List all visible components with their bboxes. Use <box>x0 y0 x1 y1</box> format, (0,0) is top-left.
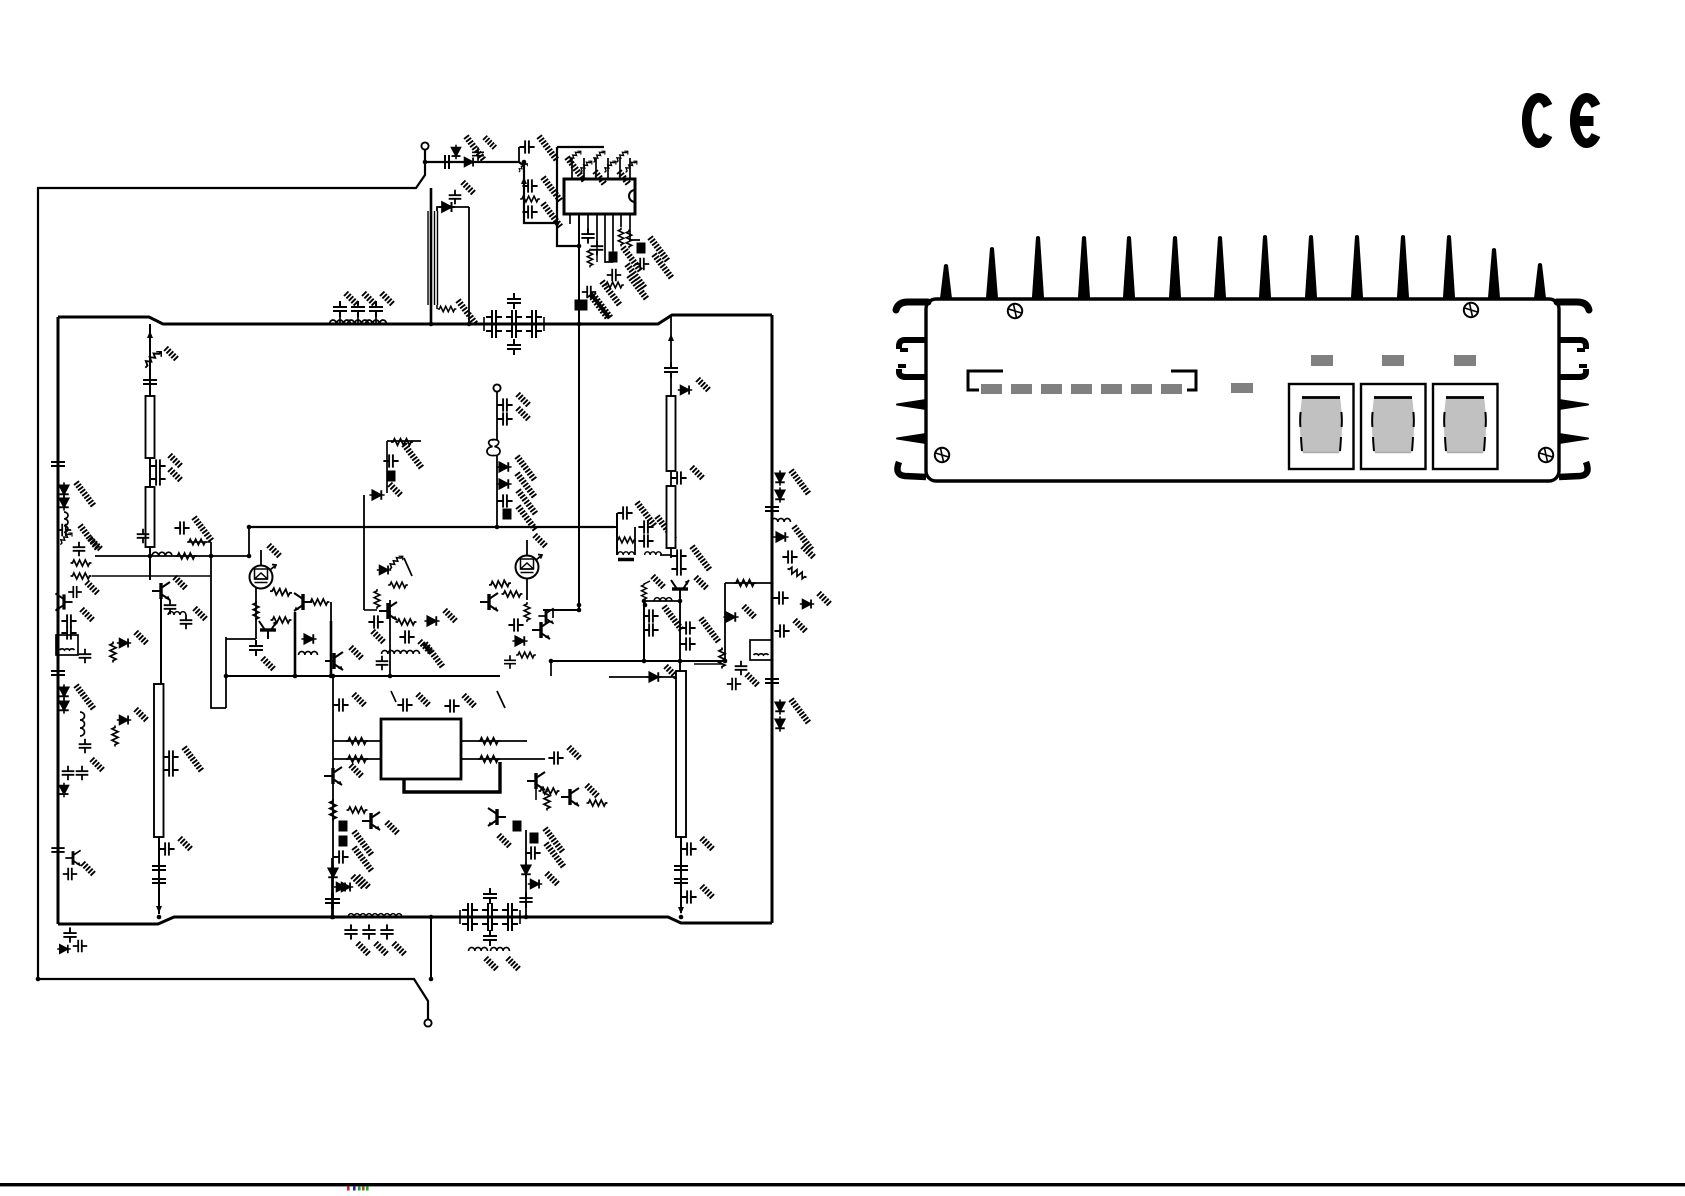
ground bus drv 3 <box>696 617 723 644</box>
ground <box>371 630 385 644</box>
resistor border link <box>734 580 756 586</box>
ground <box>453 299 480 326</box>
diode Q8 b <box>339 883 353 892</box>
ground <box>261 657 275 671</box>
wire <box>375 316 377 324</box>
inductor coil border 2 <box>80 712 85 736</box>
heatsink right fin 2 <box>1559 340 1586 349</box>
ground bus drv <box>687 545 714 572</box>
wire drop x644 <box>643 601 645 661</box>
stripline left long <box>154 684 164 837</box>
ground bus Q8 <box>349 830 376 857</box>
ground bus U1 <box>562 156 589 183</box>
resistor opto 2 <box>388 582 408 588</box>
node junction <box>642 659 647 664</box>
resistor mixer <box>616 537 636 543</box>
capacitor Q8 b <box>326 893 340 909</box>
inductor Q1 <box>168 612 186 615</box>
ground bus border a2 <box>75 524 102 551</box>
capacitor border b <box>61 614 76 627</box>
capacitor out pi b <box>502 917 518 931</box>
diode border r3 <box>773 532 788 542</box>
resistor small input <box>519 164 528 173</box>
wire aux column bottom <box>496 456 498 527</box>
ground <box>645 236 672 263</box>
diode border r6 <box>775 699 785 714</box>
capacitor border d <box>79 649 92 663</box>
heatsink right fin bottom <box>1559 462 1588 477</box>
wire <box>614 526 617 528</box>
wire switch blade <box>404 558 412 576</box>
heatsink top fin <box>1214 236 1226 300</box>
node junction <box>247 525 252 530</box>
ground <box>588 293 615 320</box>
wire IC pin s1 <box>569 214 571 224</box>
capacitor below rail a <box>63 927 76 942</box>
wire aux column top <box>496 391 498 440</box>
diode LED <box>377 566 391 575</box>
ground <box>664 665 678 679</box>
node junction <box>330 915 335 920</box>
ground <box>649 253 676 280</box>
capacitor border f2 <box>51 842 64 857</box>
screw bottom right <box>1539 448 1553 462</box>
ground <box>193 607 207 621</box>
ground <box>80 608 94 622</box>
wire IC pin s2 <box>587 214 589 231</box>
diode aux b <box>496 479 511 489</box>
resistor border 1b <box>71 573 92 579</box>
capacitor stub c <box>159 842 174 855</box>
capacitor Q7 <box>504 655 516 669</box>
capacitor out pi mid 2 <box>483 930 497 946</box>
resistor bias feed <box>391 439 413 445</box>
node junction <box>577 603 582 608</box>
diode zener input <box>145 352 161 368</box>
capacitor pi mid a <box>507 293 521 309</box>
stripline left upper <box>146 396 155 458</box>
wire bias drop <box>386 441 388 493</box>
wire stub <box>552 610 554 618</box>
resistor U1 d <box>604 282 624 288</box>
inductor L2 rail filter <box>348 320 369 324</box>
diode border f <box>117 716 131 725</box>
diode zener clamp <box>60 533 72 545</box>
wire U2 left drop <box>332 676 334 768</box>
heatsink body outline <box>926 299 1559 481</box>
heatsink top fin <box>1534 263 1546 300</box>
transistor V2 stage 2 <box>516 555 543 579</box>
node junction <box>224 674 229 679</box>
ground bus mixer a <box>632 501 659 528</box>
capacitor series rail r <box>765 501 779 517</box>
resistor V1 source <box>253 601 259 621</box>
wire Q10 emitter <box>535 789 537 800</box>
capacitor drv d <box>643 623 658 636</box>
crystal filter X2 <box>750 640 772 660</box>
capacitor below rail b <box>73 940 87 953</box>
wire IC pin s7 <box>630 214 640 240</box>
ground <box>483 136 496 149</box>
capacitor out pi a <box>462 903 478 917</box>
capacitor out b <box>362 924 375 939</box>
node junction <box>157 915 162 920</box>
ground bus limiter <box>461 135 488 162</box>
transistor Q1 driver <box>152 582 170 600</box>
ground <box>513 505 540 532</box>
wire IC top pin 1 <box>571 158 573 179</box>
wire IC pin s3 <box>596 214 598 242</box>
wire IC top pin 3 <box>595 158 597 179</box>
heatsink left fin 3 <box>899 369 926 377</box>
ground <box>349 764 363 778</box>
heatsink left fin 2 <box>899 340 926 349</box>
capacitor V2 <box>508 618 523 631</box>
heatsink top fin <box>1078 236 1090 300</box>
op-amp U1 control IC <box>564 179 635 214</box>
wire IC pin s5 <box>612 214 614 250</box>
ground <box>541 842 568 869</box>
ground <box>349 646 363 660</box>
wire mid column low <box>670 548 672 558</box>
ground <box>418 640 432 654</box>
ground <box>88 537 102 551</box>
capacitor U2 c <box>444 699 459 712</box>
capacitor U1 e <box>582 286 596 299</box>
inductor border r <box>772 518 791 522</box>
capacitor Q4 c <box>376 656 389 670</box>
ground <box>374 942 388 956</box>
node junction <box>679 915 684 920</box>
resistor opto <box>390 556 403 569</box>
resistor Q11 out <box>587 800 608 806</box>
diode Q8 a <box>328 865 338 880</box>
ground <box>512 455 539 482</box>
ground <box>618 246 645 273</box>
resistor bias diag <box>581 161 592 172</box>
capacitor shunt <box>472 147 484 161</box>
capacitor stripline tap a <box>163 750 178 763</box>
heatsink top fin <box>1123 236 1135 300</box>
diode aux a <box>496 462 511 472</box>
capacitor pi filter a <box>486 310 502 324</box>
stripline mid lower <box>667 486 676 548</box>
ground <box>497 834 511 848</box>
wire input feed <box>425 161 519 163</box>
diode border c <box>59 684 69 699</box>
capacitor stub a <box>150 459 165 472</box>
wire mid column top <box>670 315 672 362</box>
transistor Q2 <box>294 593 312 611</box>
wire to output terminal <box>430 917 432 979</box>
node junction <box>329 674 334 679</box>
heatsink top fin <box>1032 236 1044 300</box>
ground bar mixer <box>618 558 634 562</box>
node junction <box>331 674 336 679</box>
node junction <box>555 221 560 226</box>
capacitor U2 a <box>333 698 348 711</box>
inductor Q4 b <box>401 650 420 654</box>
resistor U1 b <box>626 230 631 249</box>
wire <box>670 471 672 486</box>
transistor link <box>538 608 553 623</box>
wire IC top pin 5 <box>619 158 621 179</box>
wire top supply rail <box>58 315 772 324</box>
transistor border <box>65 850 80 865</box>
wire V1 source <box>255 587 257 639</box>
heatsink right fin 5 <box>1559 434 1588 443</box>
capacitor mixer a <box>617 506 632 519</box>
capacitor V1 bypass <box>249 640 263 656</box>
ground <box>356 875 370 889</box>
capacitor feedthrough aux <box>503 509 512 520</box>
CE mark letter C <box>1527 98 1548 144</box>
wire <box>543 317 545 331</box>
footer rule <box>0 1183 1685 1186</box>
stripline left lower <box>146 487 155 547</box>
transistor Q12 <box>488 808 506 826</box>
diode below rail <box>57 945 71 954</box>
diode Q4 <box>424 616 439 626</box>
resistor border r <box>786 566 808 580</box>
inductor out 3b <box>384 914 402 917</box>
capacitor dropper a <box>522 179 537 192</box>
capacitor left shunt <box>137 529 150 543</box>
capacitor border r4 <box>735 661 748 675</box>
wire <box>694 663 722 665</box>
diode mid <box>301 634 316 644</box>
ground <box>540 827 567 854</box>
heatsink left fin 4 <box>897 400 926 409</box>
capacitor pi filter b <box>506 324 522 338</box>
capacitor out c <box>380 924 393 939</box>
wire to control IC <box>519 162 556 223</box>
capacitor feedthrough c <box>579 300 588 311</box>
ground <box>85 581 99 595</box>
ground <box>168 468 182 482</box>
ground <box>134 631 148 645</box>
wire bias column <box>363 495 365 610</box>
transistor Q11 <box>561 788 579 806</box>
resistor U2 out2 <box>478 756 500 762</box>
capacitor pi filter a <box>506 310 522 324</box>
wire Q8 emitter chain <box>332 784 334 917</box>
capacitor feedthrough rail <box>575 300 584 311</box>
wire y677 <box>609 676 680 678</box>
capacitor series d <box>674 873 688 889</box>
resistor border <box>71 560 92 566</box>
resistor bias diag <box>605 161 616 172</box>
capacitor border c <box>61 626 76 639</box>
stripline right long <box>676 671 686 837</box>
wire left column low <box>149 547 151 580</box>
diode out <box>334 883 348 892</box>
capacitor drv e <box>680 621 695 634</box>
capacitor drv c <box>643 609 658 622</box>
capacitor rail filter <box>333 301 347 317</box>
capacitor series c <box>674 860 688 876</box>
heatsink top fin <box>986 247 998 300</box>
resistor bias diag <box>617 151 628 162</box>
capacitor feedthrough e <box>339 836 348 847</box>
display bracket right <box>1171 371 1196 390</box>
ground <box>352 693 366 707</box>
node junction <box>549 659 554 664</box>
ground <box>164 347 178 361</box>
diode mid column <box>678 386 692 395</box>
diode border r4 <box>800 600 814 609</box>
capacitor stripline tap b <box>163 763 178 776</box>
capacitor border h <box>76 766 89 780</box>
display segment <box>1101 384 1122 394</box>
ground <box>533 534 547 548</box>
ground <box>516 407 530 421</box>
wire mid web vertical 2 <box>211 542 226 708</box>
wire IC top feed <box>557 146 604 148</box>
ground <box>173 576 187 590</box>
ground <box>416 693 430 707</box>
node junction <box>577 322 582 327</box>
transistor Q4 <box>379 602 397 620</box>
ground bus drv 2 <box>659 605 686 632</box>
wire <box>357 316 359 324</box>
resistor V1 base <box>270 588 292 596</box>
diode border r2 <box>775 487 785 502</box>
capacitor clamp <box>57 524 71 537</box>
wire thick drop a <box>294 612 297 676</box>
diode border g <box>60 783 69 797</box>
wire Q12 chain <box>525 830 527 917</box>
diode border r5 <box>723 612 738 622</box>
capacitor border a <box>73 542 86 556</box>
resistor U2 in1 <box>346 738 368 744</box>
ground <box>462 694 476 708</box>
capacitor stub e <box>681 890 696 903</box>
display segment <box>981 384 1002 394</box>
ground <box>513 489 540 516</box>
ground bus mixer b <box>652 515 679 542</box>
ground <box>178 837 192 851</box>
capacitor U2 b <box>397 698 412 711</box>
ground bus r1 <box>786 469 813 496</box>
capacitor Q12 b <box>519 892 532 907</box>
capacitor aux c <box>497 494 512 507</box>
wire V1 gate <box>260 550 262 565</box>
resistor Q8 <box>330 799 336 821</box>
ground bus r2 <box>786 698 813 725</box>
ground <box>168 454 182 468</box>
wire <box>436 305 438 309</box>
transistor border Q <box>55 593 72 610</box>
ground <box>700 885 714 899</box>
capacitor out series <box>325 893 339 909</box>
wire cap branch <box>518 147 520 162</box>
node junction <box>522 160 527 165</box>
display segment lone <box>1231 383 1253 393</box>
capacitor drv b <box>671 562 686 575</box>
transistor Q7 <box>532 621 550 639</box>
node arrow up <box>147 331 153 338</box>
wire <box>670 378 672 396</box>
screw top left <box>1008 304 1022 318</box>
resistor bias diag <box>594 151 605 162</box>
resistor mid web <box>187 539 207 545</box>
wire Q1 emitter <box>160 599 162 684</box>
wire bias riser <box>248 527 250 556</box>
heatsink right fin 3 <box>1559 369 1586 377</box>
switch S3 <box>1433 384 1498 469</box>
capacitor aux a <box>497 398 512 411</box>
ground <box>567 746 581 760</box>
inductor drv <box>654 598 672 601</box>
transistor Q10 <box>527 772 545 790</box>
heatsink top fin <box>940 264 952 300</box>
resistor Q2 fb <box>309 599 330 605</box>
capacitor feedthrough g <box>530 833 539 844</box>
heatsink top fin <box>1351 235 1363 300</box>
inductor out 2 <box>366 914 384 917</box>
capacitor out pi b <box>462 917 478 931</box>
diode zener limiter <box>452 145 461 159</box>
display segment <box>1131 384 1152 394</box>
wire U2 out2 <box>461 758 545 760</box>
inductor mid <box>299 651 318 655</box>
capacitor feedthrough f <box>513 821 522 832</box>
transistor Q13 <box>671 580 689 598</box>
node junction <box>643 603 648 608</box>
heatsink right fin top <box>1557 302 1589 310</box>
ground <box>597 280 624 307</box>
capacitor dc block border <box>51 456 65 472</box>
wire mid rail y527 <box>249 526 614 528</box>
switch S1 <box>1289 384 1354 469</box>
capacitor out a <box>344 924 357 939</box>
capacitor coupling left <box>143 374 157 390</box>
ground <box>385 821 399 835</box>
ground <box>801 545 815 559</box>
crystal Y1 <box>487 439 500 455</box>
capacitor match a <box>174 521 189 534</box>
ground <box>624 274 651 301</box>
wire <box>339 316 341 324</box>
heatsink top fin <box>1488 248 1500 300</box>
ground <box>344 292 358 306</box>
resistor Q7 <box>516 652 536 658</box>
wire IC left rail <box>557 147 579 246</box>
capacitor feedthrough b <box>609 252 618 263</box>
heatsink left fin hook top <box>896 302 928 310</box>
capacitor series b <box>152 873 166 889</box>
node junction <box>209 554 214 559</box>
diode drv <box>646 672 661 682</box>
capacitor feedthrough a <box>637 243 646 254</box>
resistor Q3 base <box>271 617 292 623</box>
node arrow <box>521 177 527 184</box>
capacitor pi filter b <box>486 324 502 338</box>
ground <box>622 263 649 290</box>
resistor bias diag <box>570 151 581 162</box>
diode Q12 a <box>521 862 531 877</box>
screw top right <box>1464 303 1478 317</box>
wire border link drop <box>724 583 726 661</box>
wire Q13 down <box>679 593 681 671</box>
wire left column top <box>149 324 151 396</box>
capacitor mixer b <box>638 520 653 533</box>
resistor V2 source <box>524 602 530 622</box>
wire IC top pin 6 <box>629 158 631 179</box>
resistor border 2 <box>110 642 116 663</box>
ground <box>694 576 708 590</box>
